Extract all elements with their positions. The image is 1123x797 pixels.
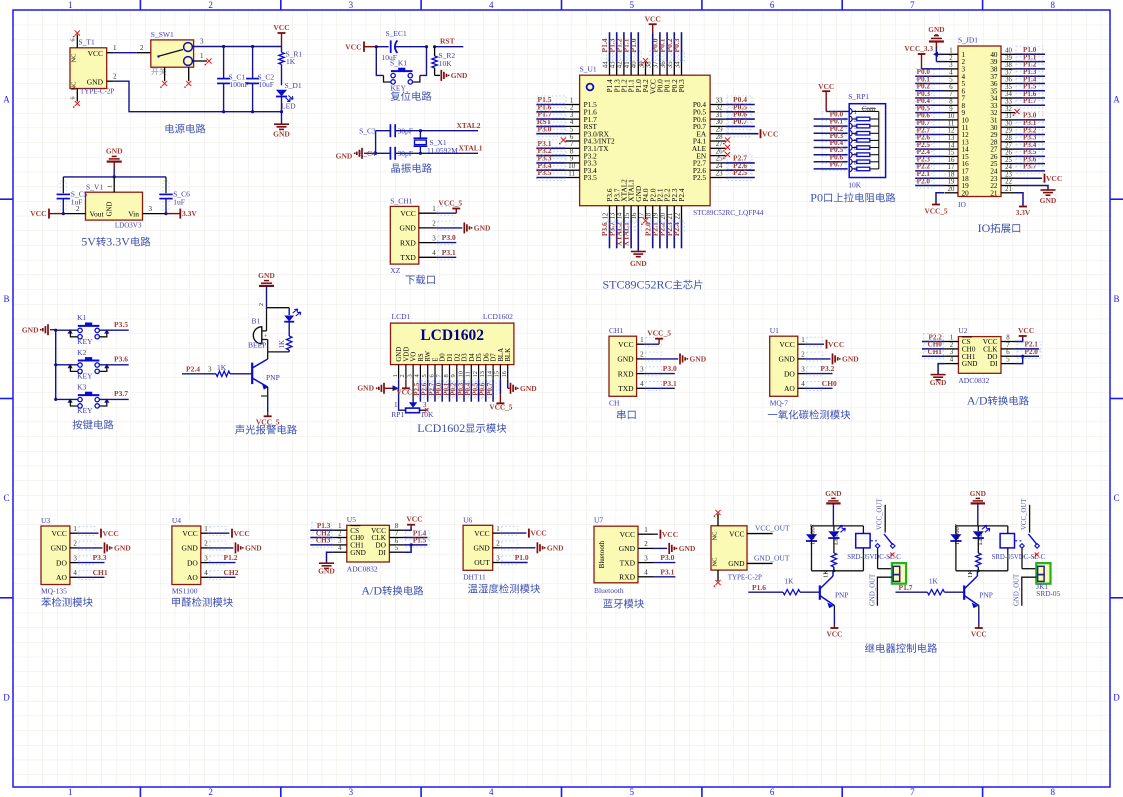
svg-text:37: 37 [1005, 69, 1012, 76]
caption 按键电路 [73, 420, 83, 430]
svg-text:LED: LED [281, 102, 296, 111]
bottom rail [956, 570, 1008, 572]
svg-text:11: 11 [465, 371, 472, 377]
svg-text:CH3: CH3 [316, 537, 331, 545]
svg-text:P3.3: P3.3 [93, 553, 107, 562]
GND bottom rail [107, 80, 114, 82]
svg-text:6: 6 [949, 84, 953, 91]
svg-text:VCC_3.3: VCC_3.3 [904, 44, 933, 53]
svg-text:21: 21 [667, 213, 674, 220]
key K2 [54, 363, 57, 366]
svg-text:GND: GND [520, 384, 537, 393]
svg-text:1K: 1K [278, 340, 286, 349]
relay coil SRD-05VDC-SL-C [856, 534, 870, 548]
BLA pin15 to VCC_5 [499, 379, 501, 394]
caption 复位电路 [391, 91, 401, 101]
VCC power symbol [278, 32, 286, 34]
svg-text:1: 1 [801, 336, 805, 344]
svg-text:6: 6 [1006, 349, 1010, 356]
bottom no-connect [717, 570, 719, 581]
svg-text:P3.6: P3.6 [114, 355, 128, 364]
svg-text:VCC_OUT: VCC_OUT [1021, 498, 1028, 530]
svg-text:2: 2 [76, 205, 80, 213]
svg-text:U5: U5 [347, 515, 356, 524]
svg-text:NC: NC [71, 81, 78, 90]
svg-text:30: 30 [1005, 120, 1012, 127]
svg-text:4: 4 [489, 787, 494, 797]
svg-text:3: 3 [423, 402, 427, 409]
svg-text:MQ-7: MQ-7 [770, 398, 789, 407]
svg-text:10K: 10K [439, 59, 453, 68]
svg-text:VCC: VCC [88, 49, 103, 58]
svg-text:IO: IO [978, 221, 991, 235]
LED with arrows [288, 308, 290, 315]
svg-text:17: 17 [638, 212, 645, 219]
terminal block (green) [892, 563, 906, 584]
svg-text:6: 6 [770, 0, 775, 10]
svg-text:CH2: CH2 [224, 568, 239, 577]
svg-text:36: 36 [660, 61, 667, 68]
svg-text:BLA: BLA [498, 348, 505, 362]
svg-text:A: A [3, 95, 10, 105]
svg-text:19: 19 [653, 212, 660, 219]
svg-text:2: 2 [338, 531, 342, 538]
svg-text:B1: B1 [252, 317, 261, 326]
svg-text:STC89C52RC: STC89C52RC [603, 278, 673, 292]
svg-text:D0: D0 [440, 353, 447, 362]
svg-text:31: 31 [1005, 113, 1012, 120]
ADC U2 ADC0832 (A/D conversion right) [922, 326, 1039, 408]
emitter to VCC_5 [261, 395, 268, 397]
svg-text:VCC: VCC [103, 529, 119, 538]
svg-text:S_RP1: S_RP1 [848, 92, 869, 101]
caption 晶振电路 [391, 164, 400, 173]
svg-text:K2: K2 [77, 348, 86, 357]
svg-text:4: 4 [950, 357, 954, 364]
caption 苯检测模块 [41, 597, 51, 607]
svg-text:3: 3 [149, 205, 153, 213]
bottom node to collector [268, 351, 290, 353]
ground [645, 358, 679, 360]
svg-text:U2: U2 [958, 326, 967, 335]
svg-text:43: 43 [610, 61, 617, 68]
svg-text:U7: U7 [594, 516, 603, 525]
svg-text:XTAL1: XTAL1 [459, 144, 483, 153]
svg-text:Bluetooth: Bluetooth [594, 586, 624, 595]
svg-text:3: 3 [801, 365, 805, 373]
svg-text:3: 3 [200, 38, 204, 46]
connector JD1 IO expansion [904, 0, 1062, 235]
regulator V1 LDO3V3 [86, 192, 143, 220]
caption 电源电路 [166, 124, 175, 133]
svg-text:23: 23 [716, 169, 724, 177]
svg-text:18: 18 [948, 171, 955, 178]
svg-text:CH: CH [609, 398, 620, 407]
VCC [653, 533, 658, 535]
svg-text:TXD: TXD [620, 558, 636, 567]
SW1 pin1 no-connect [192, 60, 207, 62]
svg-text:21: 21 [990, 189, 998, 197]
svg-text:3: 3 [349, 787, 354, 797]
svg-text:PNP: PNP [979, 591, 992, 600]
svg-text:VCC: VCC [662, 530, 678, 539]
svg-text:15: 15 [948, 150, 955, 157]
wiper from VO pin3 [412, 379, 414, 402]
transistor PNP [251, 363, 253, 385]
caption 声光报警电路 [235, 425, 244, 435]
svg-text:GND: GND [245, 544, 262, 553]
svg-text:P0.3: P0.3 [672, 38, 681, 52]
svg-text:3.3V: 3.3V [106, 235, 130, 249]
svg-text:1: 1 [432, 205, 436, 213]
svg-text:P1.7: P1.7 [1023, 97, 1037, 105]
svg-text:37: 37 [653, 61, 660, 68]
svg-text:P0.7: P0.7 [830, 160, 844, 169]
svg-text:2: 2 [208, 787, 213, 797]
VCC_5 power [645, 343, 660, 345]
pin21 to 3.3V [1015, 193, 1023, 207]
svg-text:4: 4 [949, 69, 953, 76]
LED [977, 526, 979, 531]
relay switch + contacts [1015, 540, 1022, 542]
svg-text:5V: 5V [81, 235, 96, 249]
svg-text:CH0: CH0 [822, 379, 837, 388]
svg-text:GND: GND [619, 544, 636, 553]
svg-text:SRD-05: SRD-05 [1036, 589, 1060, 598]
svg-text:CH1: CH1 [928, 348, 943, 356]
svg-text:P1.0: P1.0 [629, 38, 638, 52]
svg-text:U3: U3 [41, 516, 50, 525]
svg-text:3: 3 [432, 234, 436, 242]
svg-text:32: 32 [1005, 106, 1012, 113]
pin23 to VCC [1015, 177, 1042, 179]
svg-text:22: 22 [1005, 179, 1012, 186]
svg-text:P2.4: P2.4 [672, 222, 681, 236]
svg-text:STC89C52RC_LQFP44: STC89C52RC_LQFP44 [693, 209, 764, 217]
svg-text:E: E [433, 357, 440, 361]
top rail [63, 176, 166, 178]
svg-text:A: A [1113, 95, 1120, 105]
caption 温湿度检测模块 [468, 584, 478, 593]
svg-text:7: 7 [910, 0, 915, 10]
svg-text:VCC: VCC [618, 340, 633, 349]
svg-text:VCC: VCC [826, 630, 842, 639]
svg-text:13: 13 [610, 212, 617, 219]
svg-text:1K: 1K [217, 363, 227, 372]
svg-text:KEY: KEY [77, 372, 93, 381]
MCU U1 STC89C52RC_LQFP44 [536, 15, 778, 292]
relay control circuit left [748, 489, 927, 639]
svg-text:S_SW1: S_SW1 [151, 30, 174, 39]
svg-text:PNP: PNP [835, 591, 848, 600]
svg-text:GND: GND [842, 355, 859, 364]
svg-text:16: 16 [501, 370, 508, 377]
svg-text:33: 33 [1005, 99, 1012, 106]
alarm circuit 声光报警电路 [182, 271, 301, 435]
svg-text:S_C4: S_C4 [359, 149, 376, 158]
svg-text:B: B [3, 294, 9, 304]
svg-text:14: 14 [617, 212, 624, 219]
svg-text:B: B [1113, 294, 1119, 304]
VCC_5 power [437, 212, 457, 214]
LED [833, 526, 835, 531]
svg-text:4: 4 [644, 569, 648, 577]
svg-text:3: 3 [950, 349, 954, 356]
svg-text:ADC0832: ADC0832 [958, 376, 989, 385]
svg-text:12: 12 [472, 371, 479, 378]
svg-text:TYPE-C-2P: TYPE-C-2P [728, 574, 762, 582]
svg-text:2: 2 [640, 351, 644, 359]
svg-text:TYPE-C-2P: TYPE-C-2P [80, 88, 114, 96]
svg-text:8: 8 [1006, 335, 1010, 342]
svg-text:OUT: OUT [474, 558, 490, 567]
svg-text:9: 9 [450, 374, 457, 377]
svg-text:4: 4 [640, 380, 644, 388]
capacitor C1 100nF [223, 47, 225, 79]
svg-text:34: 34 [1005, 91, 1012, 98]
resistor network RP1 10K [810, 82, 895, 205]
svg-text:15: 15 [624, 212, 631, 219]
svg-text:1: 1 [496, 525, 500, 533]
svg-text:5: 5 [421, 374, 428, 377]
svg-text:1uF: 1uF [173, 197, 185, 206]
svg-text:10K: 10K [421, 410, 435, 419]
svg-text:2: 2 [259, 303, 265, 306]
svg-text:VCC_5: VCC_5 [489, 403, 512, 412]
svg-text:LCD1: LCD1 [392, 312, 411, 321]
svg-text:8: 8 [1051, 0, 1056, 10]
svg-text:1: 1 [73, 525, 77, 533]
connector TYPE-C-2P output [711, 510, 790, 587]
svg-text:P3.5: P3.5 [584, 173, 598, 182]
svg-text:GND: GND [690, 355, 707, 364]
crystal circuit 晶振电路 [336, 121, 483, 173]
svg-text:6: 6 [71, 39, 77, 42]
caption 继电器控制电路 [865, 643, 874, 652]
caption 甲醛检测模块 [172, 598, 180, 607]
svg-text:23: 23 [1005, 171, 1012, 178]
svg-text:3: 3 [949, 62, 953, 69]
GND_OUT wire [877, 577, 892, 606]
svg-text:XZ: XZ [390, 266, 400, 275]
svg-text:1: 1 [949, 48, 952, 55]
svg-text:CH1: CH1 [609, 326, 623, 335]
svg-text:41: 41 [624, 61, 631, 68]
svg-text:P1.7: P1.7 [899, 583, 913, 592]
svg-text:20: 20 [660, 212, 667, 219]
5V to 3.3V regulator circuit [30, 147, 197, 249]
svg-text:13: 13 [948, 135, 955, 142]
svg-text:14: 14 [486, 370, 493, 377]
caption 下载口 [406, 275, 415, 284]
diode 1N4007 [955, 526, 957, 534]
emitter to VCC [978, 606, 980, 612]
svg-text:1K: 1K [286, 57, 296, 66]
T1 top no-connect pin [76, 35, 78, 48]
svg-text:IO: IO [958, 200, 966, 209]
svg-text:36: 36 [1005, 77, 1012, 84]
svg-text:U6: U6 [463, 515, 472, 524]
svg-text:4: 4 [432, 249, 436, 257]
serial port CH1 串口 [609, 326, 707, 419]
svg-text:1K: 1K [929, 577, 939, 586]
svg-text:VCC: VCC [1018, 326, 1034, 335]
svg-text:KEY: KEY [391, 84, 407, 93]
svg-text:ADC0832: ADC0832 [347, 565, 378, 574]
svg-text:40: 40 [1005, 48, 1012, 55]
capacitor C2 10uF [252, 47, 254, 79]
svg-text:3: 3 [73, 554, 77, 562]
svg-text:Vin: Vin [128, 209, 139, 218]
svg-text:44: 44 [602, 61, 609, 68]
svg-text:MQ-135: MQ-135 [41, 587, 67, 596]
svg-text:GND: GND [779, 355, 796, 364]
svg-text:16: 16 [631, 212, 638, 219]
svg-text:GND: GND [617, 355, 634, 364]
svg-text:LCD1602: LCD1602 [420, 327, 484, 344]
svg-text:1: 1 [68, 0, 73, 10]
svg-text:1: 1 [200, 52, 204, 60]
svg-text:GND: GND [928, 25, 944, 34]
svg-text:VCC: VCC [971, 630, 987, 639]
svg-text:GND: GND [22, 325, 39, 334]
svg-text:VCC: VCC [51, 529, 66, 538]
svg-text:P2.0: P2.0 [917, 177, 931, 185]
svg-text:RST: RST [440, 37, 455, 46]
BLK pin16 to right ground [507, 379, 509, 388]
svg-text:22: 22 [674, 212, 681, 219]
svg-text:VCC_OUT: VCC_OUT [877, 498, 884, 530]
svg-text:38: 38 [646, 61, 653, 68]
bottom rail [812, 570, 864, 572]
svg-text:S_U1: S_U1 [580, 65, 597, 74]
svg-text:VCC: VCC [620, 530, 635, 539]
svg-text:GND: GND [1040, 196, 1057, 205]
svg-text:A/D: A/D [361, 584, 382, 598]
connector CH1 (XZ) [390, 206, 419, 264]
svg-text:3.3V: 3.3V [182, 209, 197, 218]
svg-text:P0.3: P0.3 [677, 79, 686, 93]
svg-text:P3.0: P3.0 [660, 553, 674, 562]
svg-text:38: 38 [1005, 62, 1012, 69]
svg-text:3: 3 [640, 365, 644, 373]
svg-text:NC: NC [712, 531, 719, 540]
svg-text:27: 27 [1005, 142, 1012, 149]
svg-text:TXD: TXD [400, 253, 416, 262]
key K1 reset button [376, 47, 383, 76]
svg-text:21: 21 [1005, 186, 1012, 193]
svg-text:3.3V: 3.3V [1016, 208, 1031, 217]
svg-text:P1.5: P1.5 [413, 537, 427, 545]
svg-text:BLK: BLK [505, 348, 512, 362]
svg-text:2: 2 [204, 540, 208, 548]
download port 下载口 [390, 196, 491, 284]
svg-text:VDD: VDD [403, 347, 410, 362]
svg-text:35: 35 [667, 61, 674, 68]
svg-text:VCC_5: VCC_5 [924, 207, 947, 216]
svg-text:VCC: VCC [396, 388, 412, 397]
svg-text:KEY: KEY [77, 406, 93, 415]
svg-text:D6: D6 [483, 353, 490, 362]
svg-text:GND: GND [930, 378, 947, 387]
svg-text:DO: DO [784, 369, 795, 378]
svg-text:P0: P0 [810, 191, 823, 205]
svg-text:GND: GND [318, 567, 335, 576]
svg-text:D1: D1 [447, 353, 454, 361]
svg-text:GND: GND [51, 544, 68, 553]
svg-text:3: 3 [208, 366, 212, 374]
svg-text:DO: DO [56, 558, 67, 567]
svg-text:VCC: VCC [182, 529, 197, 538]
svg-text:2: 2 [950, 342, 954, 349]
svg-text:P3.0: P3.0 [663, 364, 677, 373]
svg-text:1: 1 [338, 523, 341, 530]
svg-text:20: 20 [948, 186, 955, 193]
svg-text:K1: K1 [77, 313, 86, 322]
svg-text:S_JD1: S_JD1 [958, 36, 978, 45]
svg-text:7: 7 [395, 531, 399, 538]
VCC power [822, 90, 830, 92]
svg-text:GND: GND [970, 489, 986, 498]
relay control circuit right [865, 489, 1061, 653]
capacitor C5 1uF [62, 177, 64, 193]
svg-text:GND: GND [679, 544, 696, 553]
svg-text:1N4007: 1N4007 [810, 523, 817, 545]
svg-text:P3.0: P3.0 [538, 124, 552, 133]
svg-text:1: 1 [640, 336, 644, 344]
svg-text:GND_OUT: GND_OUT [1014, 573, 1021, 606]
svg-text:GND: GND [451, 71, 468, 80]
caption 串口 [617, 410, 625, 420]
CO sensor U1 MQ-7 [768, 326, 859, 419]
GND_OUT wire [1022, 577, 1037, 606]
svg-text:1: 1 [107, 185, 114, 188]
caption 蓝牙模块 [603, 599, 612, 608]
svg-text:D: D [3, 692, 10, 702]
svg-text:7: 7 [1006, 342, 1010, 349]
resistor 1K [287, 336, 292, 350]
temperature/humidity sensor U6 DHT11 [463, 515, 564, 593]
svg-text:LCD1602: LCD1602 [417, 421, 465, 435]
transistor PNP [963, 585, 965, 599]
VCC at pin2 VDD [405, 379, 407, 388]
svg-text:PNP: PNP [266, 373, 280, 382]
svg-text:LCD1602: LCD1602 [483, 312, 513, 321]
svg-text:2: 2 [113, 73, 117, 81]
svg-text:15: 15 [494, 371, 501, 378]
svg-text:P3.5: P3.5 [538, 168, 552, 177]
svg-text:P3.1: P3.1 [660, 567, 674, 576]
svg-text:2: 2 [140, 44, 144, 52]
svg-text:P3.0: P3.0 [442, 233, 456, 242]
svg-text:2: 2 [399, 374, 406, 377]
svg-text:13: 13 [479, 371, 486, 378]
svg-text:GND: GND [182, 544, 199, 553]
svg-text:RXD: RXD [400, 238, 416, 247]
svg-text:3: 3 [644, 554, 648, 562]
svg-text:1: 1 [113, 44, 117, 52]
svg-text:Bluetooth: Bluetooth [598, 540, 606, 568]
svg-text:42: 42 [617, 61, 624, 68]
svg-text:VCC: VCC [345, 42, 361, 51]
svg-text:2: 2 [208, 0, 213, 10]
svg-text:GND: GND [728, 559, 745, 568]
connector T1 TYPE-C-2P [70, 48, 107, 89]
benzene sensor U3 MQ-135 [41, 516, 131, 607]
resistor 1K [976, 553, 981, 567]
svg-text:1: 1 [394, 402, 397, 409]
svg-text:10: 10 [457, 371, 464, 378]
